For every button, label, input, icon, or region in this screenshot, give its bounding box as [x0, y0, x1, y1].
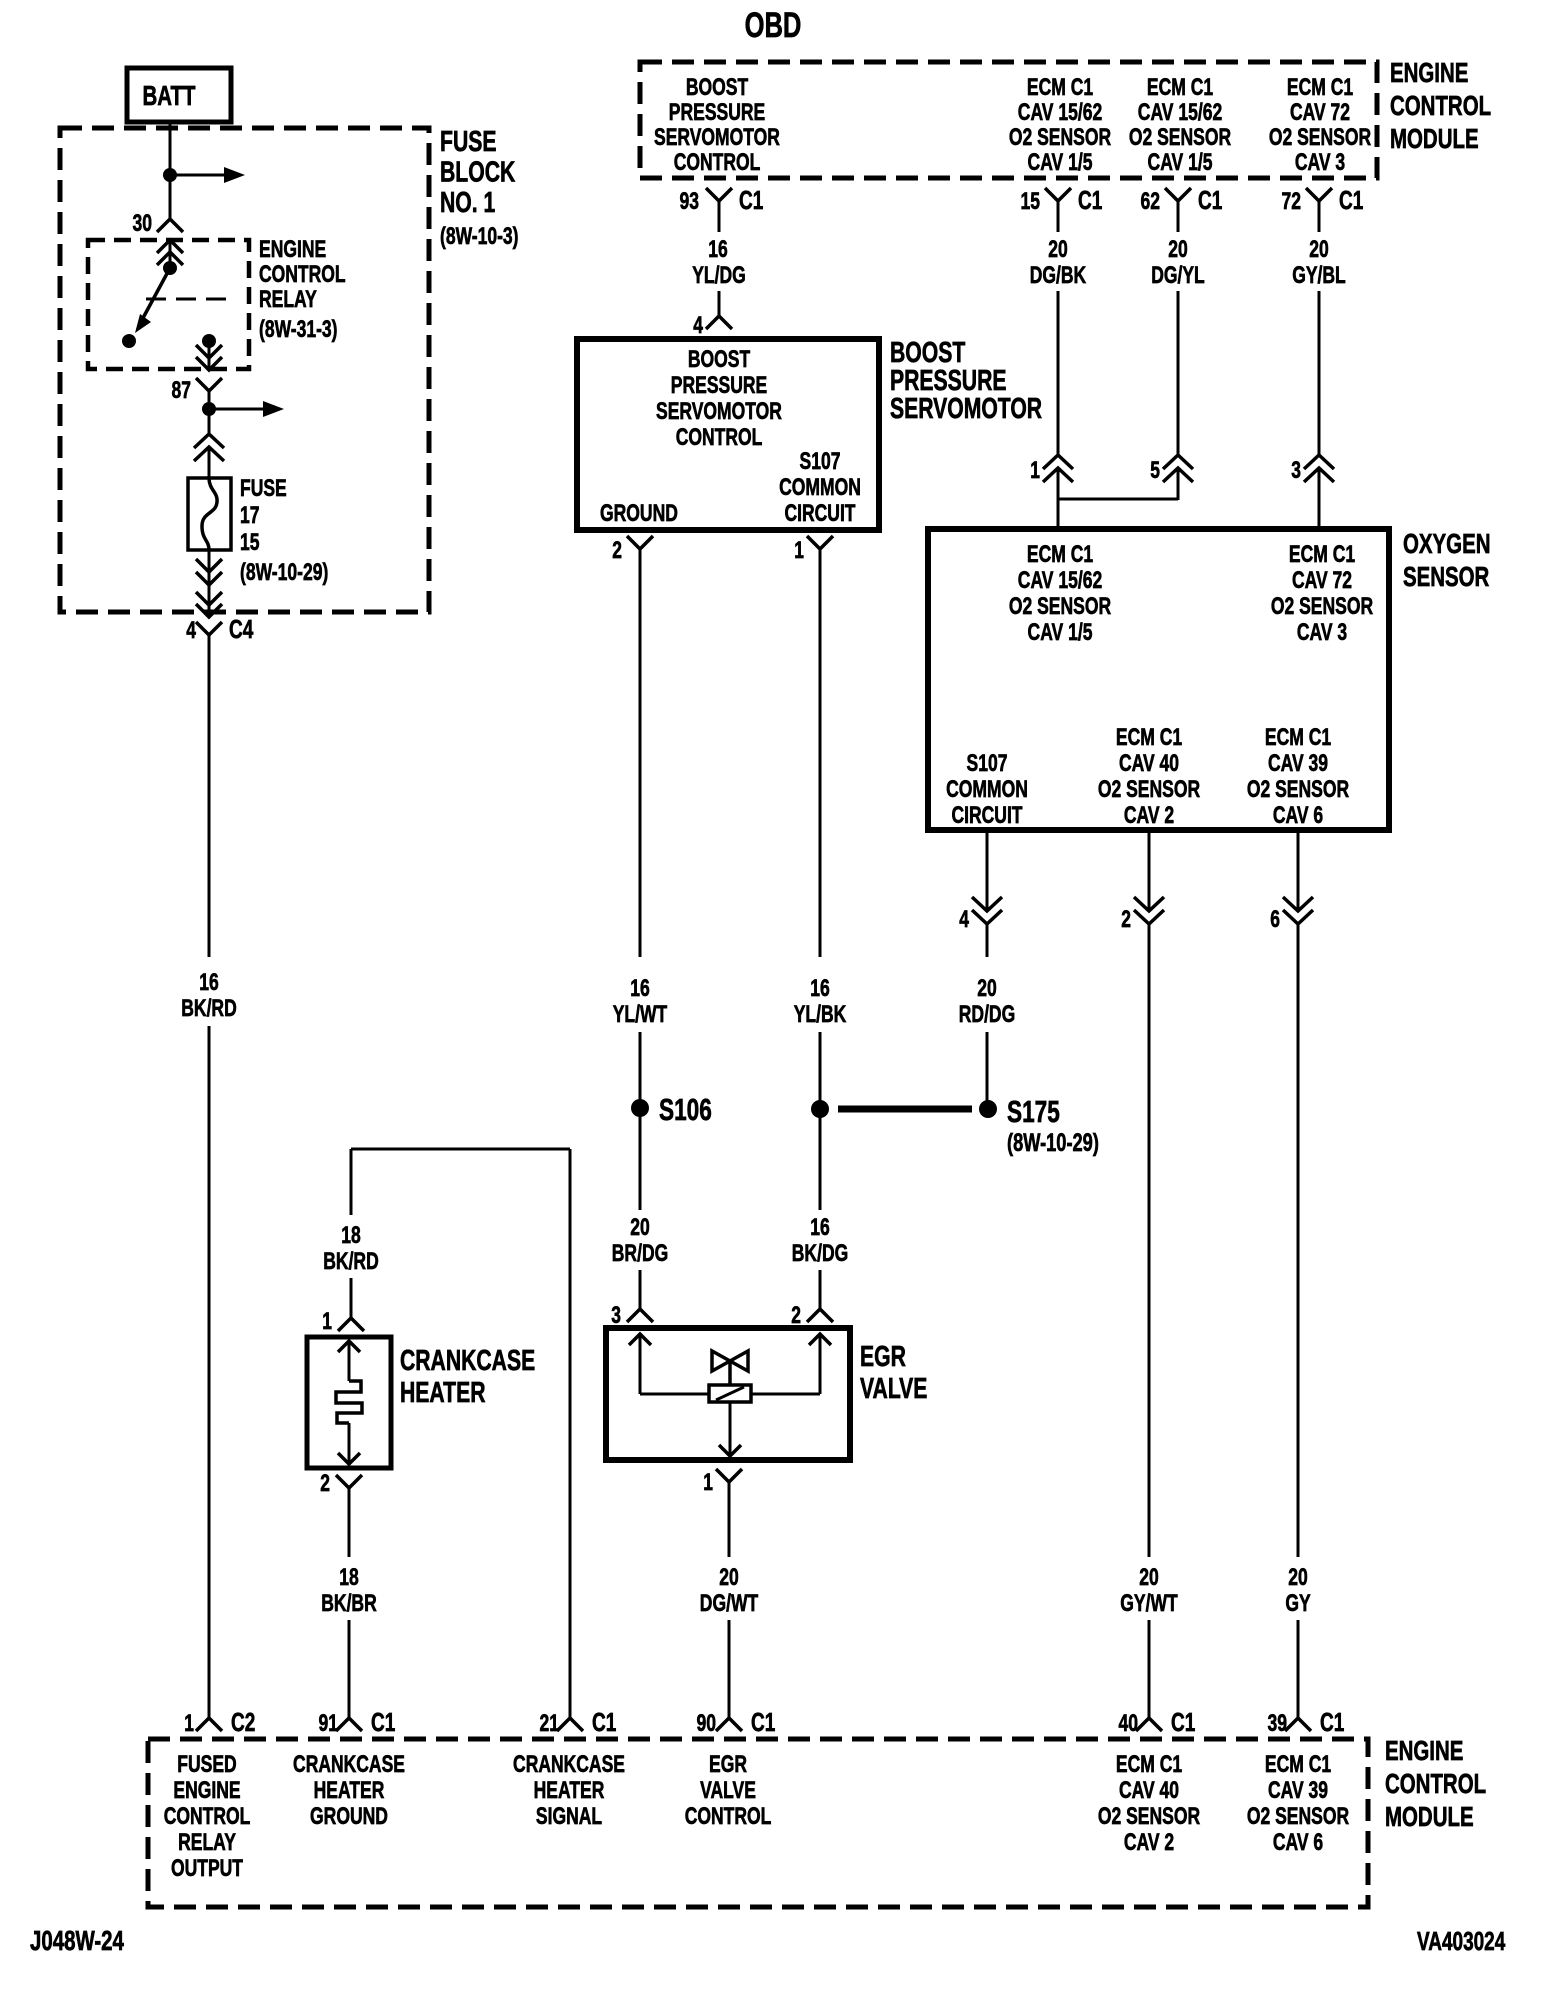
svg-text:DG/WT: DG/WT: [700, 1590, 759, 1617]
EGR internal bus wire: [640, 1393, 709, 1396]
wire 87 to junction: [208, 391, 211, 434]
wire 18 BK/BR lower: [348, 1620, 351, 1718]
svg-text:C1: C1: [371, 1707, 395, 1737]
svg-text:18: 18: [341, 1222, 361, 1249]
EGR valve bowtie symbol: [712, 1351, 748, 1371]
svg-text:GY: GY: [1285, 1590, 1310, 1617]
relay NC contact dot: [122, 334, 136, 348]
svg-text:1: 1: [794, 537, 804, 564]
svg-text:2: 2: [1121, 906, 1131, 933]
pin 90 connector fork: [716, 1718, 742, 1731]
relay contact 87 lead: [208, 341, 211, 369]
svg-text:COMMON: COMMON: [946, 776, 1028, 803]
bus wire pin5 to pin1: [1058, 498, 1178, 501]
wire 20 DG/WT lower: [728, 1620, 731, 1718]
svg-text:C4: C4: [229, 614, 254, 644]
fuse block no.1 dashed box: [60, 128, 429, 612]
svg-text:20: 20: [977, 975, 997, 1002]
svg-text:39: 39: [1268, 1710, 1288, 1737]
svg-text:3: 3: [1291, 457, 1301, 484]
relay divider dashed line: [146, 298, 232, 301]
svg-text:15: 15: [240, 529, 260, 556]
svg-text:C1: C1: [1339, 185, 1363, 215]
fuse 17 body: [188, 478, 231, 550]
svg-text:ECM C1: ECM C1: [1265, 1751, 1331, 1778]
svg-text:17: 17: [240, 502, 260, 529]
svg-text:SERVOMOTOR: SERVOMOTOR: [656, 398, 782, 425]
svg-text:20: 20: [1288, 1564, 1308, 1591]
svg-text:DG/YL: DG/YL: [1151, 262, 1205, 289]
pin 21 connector fork: [557, 1718, 583, 1731]
svg-text:20: 20: [1139, 1564, 1159, 1591]
pin 4 boost connector fork: [706, 316, 732, 329]
svg-text:S175: S175: [1007, 1094, 1060, 1129]
svg-text:RELAY: RELAY: [178, 1829, 236, 1856]
wire 20 DG/BK: [1057, 291, 1060, 455]
pin 2 double chevron down: [1134, 897, 1164, 911]
arrow feed to other circuits: [170, 174, 224, 177]
svg-text:ENGINE: ENGINE: [173, 1777, 240, 1804]
EGR output lead down: [729, 1402, 732, 1456]
svg-text:(8W-31-3): (8W-31-3): [259, 316, 338, 343]
wire 20 BR/DG lower: [639, 1270, 642, 1309]
wire to fuse: [208, 447, 211, 478]
svg-text:BOOST: BOOST: [688, 346, 751, 373]
wire pin1 into oxygen box: [1057, 469, 1060, 529]
svg-text:62: 62: [1141, 188, 1161, 215]
svg-text:S107: S107: [967, 750, 1008, 777]
svg-text:93: 93: [680, 188, 700, 215]
svg-text:SERVOMOTOR: SERVOMOTOR: [890, 393, 1042, 425]
relay contact 87 dot: [202, 334, 216, 348]
arrow feed to other circuits 2: [209, 408, 263, 411]
svg-text:BK/RD: BK/RD: [323, 1248, 379, 1275]
svg-text:CAV 3: CAV 3: [1295, 149, 1345, 176]
svg-text:ECM C1: ECM C1: [1289, 541, 1355, 568]
pin 6 double chevron down: [1283, 897, 1313, 911]
svg-text:GROUND: GROUND: [600, 500, 678, 527]
svg-text:FUSED: FUSED: [177, 1751, 236, 1778]
relay contact 87 double chevron: [196, 357, 222, 370]
svg-text:(8W-10-29): (8W-10-29): [240, 559, 328, 586]
crankcase heater signal wire top: [351, 1148, 570, 1151]
svg-text:CONTROL: CONTROL: [674, 149, 761, 176]
wire 20 GY lower: [1297, 1620, 1300, 1718]
wire 16 BK/RD upper: [208, 635, 211, 957]
pin 91 connector fork: [336, 1718, 362, 1731]
svg-text:4: 4: [186, 617, 196, 644]
svg-text:CAV 40: CAV 40: [1119, 1777, 1179, 1804]
svg-text:(8W-10-3): (8W-10-3): [440, 223, 519, 250]
svg-text:GY/WT: GY/WT: [1120, 1590, 1178, 1617]
svg-text:CAV 3: CAV 3: [1297, 619, 1347, 646]
svg-text:O2 SENSOR: O2 SENSOR: [1247, 776, 1349, 803]
splice bus wire to S175: [838, 1106, 972, 1113]
svg-text:6: 6: [1270, 906, 1280, 933]
svg-text:C1: C1: [1078, 185, 1102, 215]
svg-text:C1: C1: [751, 1707, 775, 1737]
svg-text:4: 4: [693, 312, 703, 339]
svg-text:C1: C1: [739, 185, 763, 215]
svg-text:ENGINE: ENGINE: [1385, 1735, 1463, 1766]
pin 30 connector fork: [157, 219, 183, 232]
svg-text:CAV 1/5: CAV 1/5: [1028, 149, 1093, 176]
svg-text:S106: S106: [659, 1092, 712, 1127]
pin 5 oxygen double chevron: [1163, 455, 1193, 469]
pin 72 connector fork: [1306, 188, 1332, 201]
pin 87 connector fork: [196, 378, 222, 391]
splice junction dot on YL/BK: [811, 1100, 829, 1118]
pin 40 connector fork: [1136, 1718, 1162, 1731]
svg-text:40: 40: [1119, 1710, 1139, 1737]
connector C4 fork: [196, 622, 222, 635]
svg-text:MODULE: MODULE: [1385, 1801, 1474, 1832]
svg-text:ECM C1: ECM C1: [1027, 541, 1093, 568]
svg-text:OXYGEN: OXYGEN: [1403, 528, 1491, 559]
pin 1 oxygen double chevron: [1043, 455, 1073, 469]
pin 1 EGR connector fork: [716, 1469, 742, 1482]
svg-text:SERVOMOTOR: SERVOMOTOR: [654, 124, 780, 151]
svg-text:20: 20: [1048, 236, 1068, 263]
heater element meander: [336, 1381, 362, 1423]
svg-text:BK/DG: BK/DG: [792, 1240, 848, 1267]
splice S106 dot: [631, 1099, 649, 1117]
wire 20 BR/DG upper: [639, 1108, 642, 1210]
svg-text:87: 87: [172, 377, 192, 404]
oxygen sensor box: [928, 529, 1389, 830]
svg-text:72: 72: [1282, 188, 1302, 215]
heater element lead down arrow: [348, 1423, 351, 1464]
svg-text:VA403024: VA403024: [1417, 1926, 1506, 1956]
svg-text:VALVE: VALVE: [700, 1777, 756, 1804]
junction dot on batt feed: [163, 168, 177, 182]
pin 3 EGR connector fork: [627, 1309, 653, 1322]
pin 4 double chevron down: [972, 897, 1002, 911]
wire 20 RD/DG upper: [986, 924, 989, 957]
svg-text:20: 20: [630, 1214, 650, 1241]
svg-text:OBD: OBD: [745, 6, 802, 45]
EGR valve stem: [728, 1361, 732, 1385]
pin 2 heater connector fork: [336, 1475, 362, 1488]
svg-text:SENSOR: SENSOR: [1403, 561, 1489, 592]
svg-text:ECM C1: ECM C1: [1287, 74, 1353, 101]
svg-text:COMMON: COMMON: [779, 474, 861, 501]
wire BATT to relay contact 30: [169, 120, 172, 219]
svg-text:BATT: BATT: [143, 80, 196, 111]
svg-text:2: 2: [320, 1470, 330, 1497]
svg-text:CRANKCASE: CRANKCASE: [400, 1345, 535, 1377]
svg-text:FUSE: FUSE: [240, 475, 287, 502]
svg-text:EGR: EGR: [860, 1341, 906, 1373]
svg-text:CAV 15/62: CAV 15/62: [1018, 99, 1102, 126]
svg-text:ECM C1: ECM C1: [1027, 74, 1093, 101]
pin 2 boost connector fork: [627, 536, 653, 549]
svg-text:1: 1: [322, 1308, 332, 1335]
svg-text:18: 18: [339, 1564, 359, 1591]
svg-text:RD/DG: RD/DG: [959, 1001, 1015, 1028]
svg-text:HEATER: HEATER: [314, 1777, 385, 1804]
svg-text:O2 SENSOR: O2 SENSOR: [1129, 124, 1231, 151]
wire fuse to connectors: [208, 550, 211, 617]
svg-text:BOOST: BOOST: [686, 74, 749, 101]
svg-text:GY/BL: GY/BL: [1292, 262, 1346, 289]
svg-text:O2 SENSOR: O2 SENSOR: [1271, 593, 1373, 620]
svg-text:CAV 1/5: CAV 1/5: [1148, 149, 1213, 176]
svg-text:YL/DG: YL/DG: [692, 262, 746, 289]
fuse 17 element curve: [202, 478, 217, 550]
wire 20 GY/WT lower: [1148, 1620, 1151, 1718]
svg-text:RELAY: RELAY: [259, 286, 317, 313]
svg-text:5: 5: [1150, 457, 1160, 484]
engine control module top dashed box: [640, 62, 1377, 178]
svg-text:O2 SENSOR: O2 SENSOR: [1098, 776, 1200, 803]
svg-text:CIRCUIT: CIRCUIT: [785, 500, 856, 527]
svg-text:CONTROL: CONTROL: [259, 261, 346, 288]
wire 16 YL/BK upper: [819, 570, 822, 957]
wire 16 BK/DG lower: [819, 1270, 822, 1309]
svg-text:HEATER: HEATER: [534, 1777, 605, 1804]
EGR solenoid rect: [709, 1385, 751, 1402]
inline connector double chevron down: [196, 559, 222, 572]
svg-text:ENGINE: ENGINE: [259, 236, 326, 263]
heater element lead up arrow: [338, 1341, 360, 1352]
svg-text:CONTROL: CONTROL: [676, 424, 763, 451]
svg-text:BR/DG: BR/DG: [612, 1240, 668, 1267]
svg-text:4: 4: [959, 906, 969, 933]
svg-text:MODULE: MODULE: [1390, 123, 1479, 154]
svg-text:CAV 40: CAV 40: [1119, 750, 1179, 777]
svg-text:90: 90: [697, 1710, 717, 1737]
wire 16 YL/DG: [718, 291, 721, 316]
wire pin5 to bus: [1177, 469, 1180, 500]
wire s107 out of oxygen box: [986, 830, 989, 910]
svg-text:16: 16: [810, 975, 830, 1002]
svg-text:VALVE: VALVE: [860, 1373, 927, 1405]
svg-text:CONTROL: CONTROL: [1385, 1768, 1486, 1799]
svg-text:CAV 72: CAV 72: [1290, 99, 1350, 126]
junction dot below 87: [202, 402, 216, 416]
svg-text:HEATER: HEATER: [400, 1377, 486, 1409]
svg-text:CAV 6: CAV 6: [1273, 1829, 1323, 1856]
svg-text:CAV 1/5: CAV 1/5: [1028, 619, 1093, 646]
svg-text:CAV 2: CAV 2: [1124, 802, 1174, 829]
svg-text:C2: C2: [231, 1707, 255, 1737]
svg-text:3: 3: [611, 1302, 621, 1329]
svg-text:CRANKCASE: CRANKCASE: [293, 1751, 405, 1778]
svg-text:21: 21: [540, 1710, 560, 1737]
svg-text:PRESSURE: PRESSURE: [671, 372, 767, 399]
wire cav39 out of oxygen box: [1297, 830, 1300, 910]
crankcase heater feed wire: [350, 1149, 353, 1215]
svg-text:CAV 15/62: CAV 15/62: [1018, 567, 1102, 594]
svg-text:BLOCK: BLOCK: [440, 157, 515, 189]
svg-text:2: 2: [791, 1302, 801, 1329]
svg-text:CAV 2: CAV 2: [1124, 1829, 1174, 1856]
svg-text:91: 91: [319, 1710, 339, 1737]
relay fixed contact 30 double chevron: [157, 240, 183, 253]
svg-text:20: 20: [1168, 236, 1188, 263]
svg-text:1: 1: [703, 1469, 713, 1496]
relay armature arm: [143, 268, 170, 318]
crankcase heater box: [307, 1337, 391, 1468]
svg-text:16: 16: [199, 969, 219, 996]
svg-text:GROUND: GROUND: [310, 1803, 388, 1830]
EGR pin2 internal lead: [819, 1334, 822, 1394]
svg-text:ECM C1: ECM C1: [1265, 724, 1331, 751]
svg-text:O2 SENSOR: O2 SENSOR: [1098, 1803, 1200, 1830]
svg-text:YL/BK: YL/BK: [794, 1001, 847, 1028]
battery feed BATT: [127, 68, 231, 122]
svg-text:20: 20: [1309, 236, 1329, 263]
svg-text:O2 SENSOR: O2 SENSOR: [1269, 124, 1371, 151]
EGR pin3 internal lead: [639, 1334, 642, 1394]
svg-text:CRANKCASE: CRANKCASE: [513, 1751, 625, 1778]
svg-text:16: 16: [810, 1214, 830, 1241]
svg-text:1: 1: [184, 1710, 194, 1737]
svg-text:1: 1: [1030, 457, 1040, 484]
wire 20 RD/DG lower: [986, 1032, 989, 1108]
pin 93 connector fork: [706, 188, 732, 201]
wire 16 BK/RD lower: [208, 1026, 211, 1718]
svg-text:S107: S107: [800, 448, 841, 475]
svg-text:(8W-10-29): (8W-10-29): [1007, 1129, 1099, 1157]
wire 16 BK/DG upper: [819, 1108, 822, 1210]
pin 39 connector fork: [1285, 1718, 1311, 1731]
svg-text:J048W-24: J048W-24: [30, 1925, 124, 1956]
svg-text:O2 SENSOR: O2 SENSOR: [1009, 124, 1111, 151]
svg-text:ECM C1: ECM C1: [1116, 724, 1182, 751]
svg-text:BK/RD: BK/RD: [181, 995, 237, 1022]
svg-text:BK/BR: BK/BR: [321, 1590, 377, 1617]
svg-text:16: 16: [708, 236, 728, 263]
splice S175 dot: [979, 1100, 997, 1118]
svg-text:C1: C1: [1320, 1707, 1344, 1737]
pin 1 boost connector fork: [807, 536, 833, 549]
svg-text:FUSE: FUSE: [440, 126, 497, 158]
svg-text:NO. 1: NO. 1: [440, 187, 495, 219]
wire 20 GY/WT upper: [1148, 924, 1151, 1557]
engine control relay dashed box: [88, 240, 249, 369]
svg-text:ECM C1: ECM C1: [1116, 1751, 1182, 1778]
wire 20 GY/BL: [1318, 291, 1321, 455]
svg-text:C1: C1: [1171, 1707, 1195, 1737]
pin 15 connector fork: [1045, 188, 1071, 201]
pin 2 EGR connector fork: [807, 1309, 833, 1322]
svg-text:SIGNAL: SIGNAL: [536, 1803, 602, 1830]
svg-text:CONTROL: CONTROL: [1390, 90, 1491, 121]
svg-text:CAV 15/62: CAV 15/62: [1138, 99, 1222, 126]
svg-text:20: 20: [719, 1564, 739, 1591]
wire pin3 into oxygen box: [1318, 469, 1321, 529]
wire 16 YL/WT lower: [639, 1032, 642, 1108]
pin 62 connector fork: [1165, 188, 1191, 201]
svg-text:O2 SENSOR: O2 SENSOR: [1247, 1803, 1349, 1830]
crankcase signal wire right leg: [569, 1149, 572, 1718]
svg-text:OUTPUT: OUTPUT: [171, 1855, 243, 1882]
relay armature pivot dot: [163, 261, 177, 275]
wire 16 YL/BK lower: [819, 1032, 822, 1108]
wire 20 DG/YL: [1177, 291, 1180, 455]
pin 3 oxygen double chevron: [1304, 455, 1334, 469]
svg-text:CAV 72: CAV 72: [1292, 567, 1352, 594]
svg-text:CAV 6: CAV 6: [1273, 802, 1323, 829]
inline connector double chevron up: [194, 434, 224, 448]
svg-text:C1: C1: [592, 1707, 616, 1737]
svg-text:30: 30: [133, 210, 153, 237]
svg-text:CIRCUIT: CIRCUIT: [952, 802, 1023, 829]
svg-text:PRESSURE: PRESSURE: [669, 99, 765, 126]
EGR valve box: [606, 1328, 850, 1460]
pin 1 heater connector fork: [338, 1318, 364, 1331]
svg-text:C1: C1: [1198, 185, 1222, 215]
svg-text:CAV 39: CAV 39: [1268, 750, 1328, 777]
pin 1 C2 connector fork: [196, 1718, 222, 1731]
svg-text:YL/WT: YL/WT: [613, 1001, 668, 1028]
svg-text:CONTROL: CONTROL: [164, 1803, 251, 1830]
svg-text:15: 15: [1021, 188, 1041, 215]
svg-text:16: 16: [630, 975, 650, 1002]
svg-text:ECM C1: ECM C1: [1147, 74, 1213, 101]
svg-text:2: 2: [612, 537, 622, 564]
svg-text:O2 SENSOR: O2 SENSOR: [1009, 593, 1111, 620]
svg-text:DG/BK: DG/BK: [1030, 262, 1087, 289]
svg-text:CONTROL: CONTROL: [685, 1803, 772, 1830]
wire 20 GY upper: [1297, 924, 1300, 1557]
svg-text:CAV 39: CAV 39: [1268, 1777, 1328, 1804]
svg-text:ENGINE: ENGINE: [1390, 57, 1468, 88]
fuse block exit double chevron down: [196, 592, 222, 605]
boost pressure servomotor box: [577, 339, 879, 530]
wire 16 YL/WT upper: [639, 570, 642, 957]
engine control module bottom dashed box: [148, 1739, 1368, 1907]
wire cav40 out of oxygen box: [1148, 830, 1151, 910]
svg-text:EGR: EGR: [709, 1751, 747, 1778]
wire 18 BK/RD lower: [350, 1278, 353, 1318]
